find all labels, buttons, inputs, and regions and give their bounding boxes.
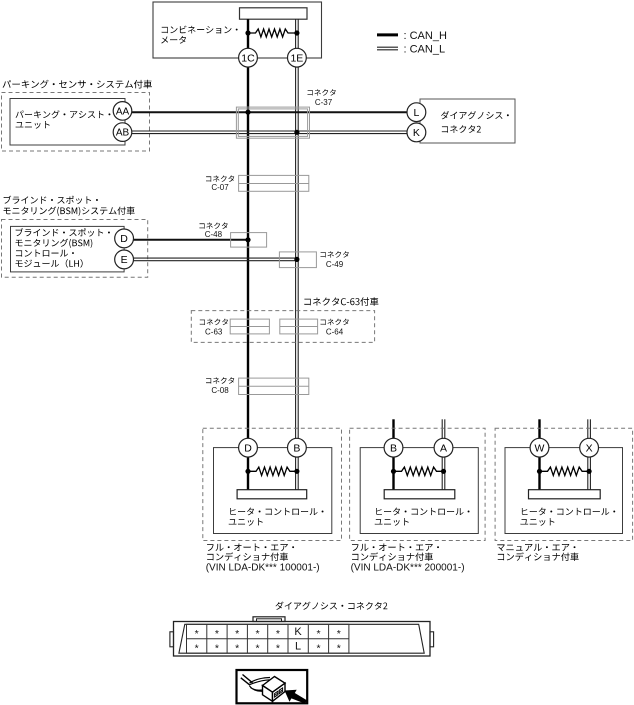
diagnosis connector 2 box bbox=[420, 99, 515, 143]
wire AB to K (CAN_L) bbox=[132, 131, 407, 134]
connector illustration body bbox=[263, 677, 286, 702]
connector top tab bbox=[253, 617, 285, 622]
svg-text:A: A bbox=[440, 442, 447, 454]
heater unit 1 label bbox=[229, 508, 324, 526]
heater unit 2 label bbox=[375, 508, 470, 526]
heater unit 3 ground bar bbox=[529, 490, 601, 499]
heater unit 3 CAN_H pin wire bbox=[538, 457, 540, 490]
svg-text:X: X bbox=[586, 442, 593, 454]
svg-text:*: * bbox=[276, 642, 280, 654]
pin W (unit 3) bbox=[530, 438, 549, 457]
connector C-37 (outer) bbox=[236, 107, 309, 138]
heater unit 1 CAN_H pin wire bbox=[247, 457, 249, 490]
junction dots unit 2 bbox=[391, 469, 446, 474]
connector C-07 bbox=[239, 175, 309, 191]
svg-text:*: * bbox=[316, 642, 320, 654]
combination meter internal bus bar bbox=[240, 8, 308, 19]
BSM control module box bbox=[11, 226, 125, 272]
svg-text:K: K bbox=[413, 127, 420, 139]
svg-text:1C: 1C bbox=[241, 52, 255, 64]
wire CAN_H from bar to pin 1C bbox=[247, 19, 249, 49]
connector illustration wires bbox=[241, 675, 270, 692]
svg-text:*: * bbox=[215, 628, 219, 640]
svg-text:*: * bbox=[215, 642, 219, 654]
pin B (unit 1) bbox=[288, 438, 307, 457]
svg-text:*: * bbox=[195, 628, 199, 640]
heater control unit 3 box bbox=[505, 448, 623, 534]
pin K cell bbox=[294, 626, 302, 638]
junction dot CAN_H / D wire bbox=[245, 237, 250, 242]
legend CAN_H line sample bbox=[377, 33, 398, 36]
wire D to CAN_H bbox=[133, 239, 248, 241]
heater unit 2 CAN_H pin wire bbox=[392, 457, 394, 490]
unit1 caption bbox=[206, 543, 320, 573]
heater control unit 1 box bbox=[214, 448, 332, 534]
svg-text:(VIN LDA-DK*** 200001-): (VIN LDA-DK*** 200001-) bbox=[351, 562, 465, 573]
heater unit 2 terminating resistor bbox=[394, 467, 444, 475]
connector C-63 label bbox=[200, 319, 228, 337]
pin D (BSM) bbox=[115, 229, 134, 248]
junction dot CAN_H / AA wire bbox=[245, 110, 250, 115]
connector illustration frame bbox=[237, 670, 308, 703]
CAN_L bus wire (1E down to heater unit B) bbox=[296, 67, 299, 439]
CAN_H bus wire (1C down to heater unit D) bbox=[247, 67, 249, 439]
svg-text:*: * bbox=[235, 628, 239, 640]
connector C-08 bbox=[239, 378, 309, 394]
svg-text:: CAN_H: : CAN_H bbox=[404, 30, 447, 42]
heater unit 1 CAN_L pin wire bbox=[296, 457, 299, 490]
connector C-64 bbox=[280, 319, 318, 334]
pin X (unit 3) bbox=[580, 438, 599, 457]
unit3 caption bbox=[497, 544, 578, 561]
connector left side tab bbox=[170, 632, 174, 647]
heater unit 2 ground bar bbox=[384, 490, 455, 499]
svg-text:1E: 1E bbox=[290, 52, 303, 64]
svg-text:C-49: C-49 bbox=[326, 260, 344, 269]
diagnosis connector 2 pinout label bbox=[275, 602, 387, 610]
svg-text:AB: AB bbox=[116, 128, 130, 139]
wire CAN_L from bar to pin 1E bbox=[296, 19, 299, 49]
BSM system label bbox=[4, 196, 135, 216]
heater unit 1 terminating resistor bbox=[248, 467, 297, 475]
combination meter label bbox=[161, 26, 237, 44]
svg-text:C-63: C-63 bbox=[205, 327, 223, 336]
C-63 variant dashed box bbox=[191, 311, 374, 343]
svg-text:C-48: C-48 bbox=[205, 230, 223, 239]
pin grid bbox=[187, 624, 349, 653]
svg-text:*: * bbox=[316, 628, 320, 640]
BSM control module label bbox=[16, 228, 110, 268]
heater unit 1 ground bar bbox=[237, 490, 307, 499]
svg-text:*: * bbox=[195, 642, 199, 654]
heater unit 3 CAN_L pin wire bbox=[588, 457, 591, 490]
parking system dashed box bbox=[2, 93, 150, 152]
terminating resistor in combination meter bbox=[248, 29, 297, 37]
connector C-63 bbox=[230, 319, 269, 334]
legend CAN_L text bbox=[404, 43, 446, 55]
connector C-48 label bbox=[199, 222, 227, 239]
svg-text:L: L bbox=[295, 641, 301, 653]
svg-text:K: K bbox=[294, 626, 302, 638]
BSM dashed box bbox=[2, 220, 148, 278]
connector C-37 (inner) bbox=[238, 109, 307, 136]
heater control unit 3 dashed box bbox=[495, 428, 632, 540]
unit3 CAN_L stub bbox=[588, 419, 591, 438]
pin L bbox=[407, 103, 426, 122]
unit2 CAN_H stub bbox=[392, 419, 394, 438]
junction dot on CAN_L at resistor bbox=[294, 30, 299, 35]
connector C-49 label bbox=[321, 251, 349, 269]
svg-text:L: L bbox=[413, 107, 419, 119]
svg-text:W: W bbox=[535, 442, 545, 454]
junction dot CAN_L / AB wire bbox=[294, 130, 299, 135]
svg-text:*: * bbox=[337, 628, 341, 640]
heater control unit 1 dashed box bbox=[203, 428, 342, 540]
wire E to CAN_L bbox=[133, 258, 297, 261]
diagnosis connector 2 label bbox=[441, 111, 509, 133]
connector C-08 label bbox=[206, 377, 234, 395]
connector C-07 label bbox=[206, 175, 234, 192]
svg-text:*: * bbox=[256, 642, 260, 654]
connector C-64 label bbox=[321, 319, 349, 337]
wire AA to L (CAN_H) bbox=[132, 111, 407, 113]
unit2 caption bbox=[351, 543, 465, 573]
heater control unit 2 dashed box bbox=[350, 428, 486, 540]
pin B (unit 2) bbox=[384, 438, 403, 457]
pin 1E bbox=[288, 48, 307, 67]
junction dot on CAN_H at resistor bbox=[245, 30, 250, 35]
pin E (BSM) bbox=[115, 250, 134, 269]
svg-text:AA: AA bbox=[116, 106, 130, 117]
pin 1C bbox=[239, 48, 258, 67]
pin AB bbox=[113, 123, 132, 142]
unit2 CAN_L stub bbox=[442, 419, 445, 438]
svg-text:E: E bbox=[121, 254, 128, 266]
connector right side tab bbox=[430, 632, 434, 647]
heater unit 3 terminating resistor bbox=[540, 467, 590, 475]
pin A (unit 2) bbox=[434, 438, 453, 457]
svg-text:B: B bbox=[293, 442, 300, 454]
svg-text:: CAN_L: : CAN_L bbox=[404, 43, 446, 55]
heater control unit 2 box bbox=[360, 448, 478, 534]
connector body outer bbox=[174, 622, 431, 657]
legend CAN_H text bbox=[404, 30, 447, 42]
pin AA bbox=[113, 102, 132, 121]
svg-text:*: * bbox=[276, 628, 280, 640]
svg-text:C-08: C-08 bbox=[211, 386, 229, 395]
connector inner trapezoid bbox=[179, 624, 424, 653]
combination meter box U1 bbox=[153, 2, 322, 58]
legend CAN_L line sample bbox=[377, 47, 398, 50]
parking assist unit label bbox=[16, 110, 111, 128]
svg-text:D: D bbox=[244, 442, 252, 454]
C-63 variant label bbox=[304, 297, 378, 306]
pin stars bbox=[195, 628, 341, 655]
connector C-49 bbox=[279, 252, 316, 268]
connector C-37 label bbox=[308, 89, 336, 107]
parking sensor system label bbox=[3, 80, 152, 89]
unit3 CAN_H stub bbox=[538, 419, 540, 438]
pin K bbox=[407, 123, 426, 142]
svg-text:C-64: C-64 bbox=[326, 327, 344, 336]
black arrow bbox=[285, 690, 308, 704]
heater unit 3 label bbox=[520, 508, 615, 526]
svg-text:B: B bbox=[390, 442, 397, 454]
heater unit 2 CAN_L pin wire bbox=[442, 457, 445, 490]
pin D (unit 1) bbox=[239, 438, 258, 457]
junction dots unit 1 bbox=[245, 469, 299, 474]
junction dot CAN_L / E wire bbox=[294, 257, 299, 262]
parking assist unit box bbox=[10, 99, 125, 146]
svg-text:C-37: C-37 bbox=[315, 98, 333, 107]
svg-text:*: * bbox=[235, 642, 239, 654]
svg-text:*: * bbox=[256, 628, 260, 640]
svg-text:D: D bbox=[120, 233, 128, 245]
svg-text:(VIN LDA-DK*** 100001-): (VIN LDA-DK*** 100001-) bbox=[206, 562, 320, 573]
connector C-48 bbox=[231, 233, 267, 248]
junction dots unit 3 bbox=[537, 469, 592, 474]
pin L cell bbox=[295, 641, 301, 653]
svg-text:C-07: C-07 bbox=[211, 183, 229, 192]
svg-text:*: * bbox=[337, 642, 341, 654]
